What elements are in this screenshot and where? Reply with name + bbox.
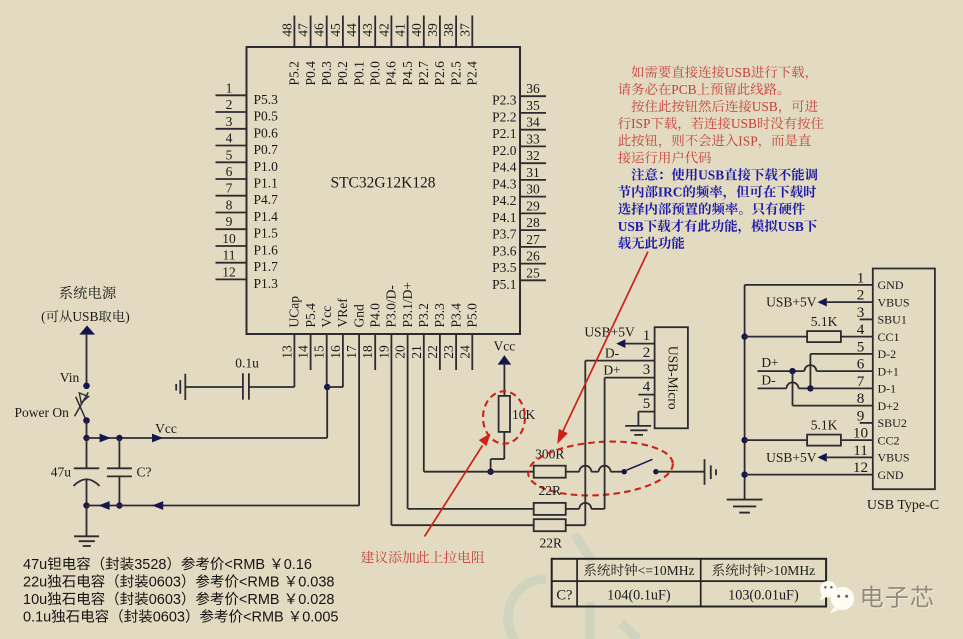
svg-text:7: 7 xyxy=(857,373,865,390)
svg-text:45: 45 xyxy=(328,23,343,37)
arrow on ground rail 2 xyxy=(152,501,163,510)
USB Type-C pin 6 wire (D+1) xyxy=(816,370,872,372)
U1 pin 22 lead (bottom) xyxy=(439,334,441,370)
U1 pin 14 lead (bottom) xyxy=(310,334,312,370)
wire ground to C 0.1u xyxy=(185,386,243,388)
svg-text:5: 5 xyxy=(226,147,233,162)
svg-text:<=10MHz: <=10MHz xyxy=(638,563,695,578)
switch S2 arm xyxy=(627,459,653,470)
svg-text:0603: 0603 xyxy=(149,575,181,591)
resistor R 22R (upper) xyxy=(534,503,566,515)
wire 300R to hop xyxy=(566,471,580,473)
U1 pin 29 lead (right) xyxy=(520,212,546,214)
wire D+ stub xyxy=(758,370,805,372)
svg-text:USB+5V: USB+5V xyxy=(766,450,817,465)
svg-text:23: 23 xyxy=(441,345,456,359)
capacitor 47u top wire xyxy=(86,438,88,468)
svg-text:P5.1: P5.1 xyxy=(492,277,516,292)
capacitor C? top wire xyxy=(118,438,120,468)
svg-text:0.1u: 0.1u xyxy=(23,610,51,626)
U1 pin 38 lead (top) xyxy=(455,16,457,48)
svg-text:1: 1 xyxy=(643,328,651,344)
svg-text:USB: USB xyxy=(752,99,778,114)
svg-text:11: 11 xyxy=(223,248,236,263)
U1 pin 11 lead (left) xyxy=(216,262,247,264)
svg-text:USB: USB xyxy=(778,219,804,234)
svg-text:P2.5: P2.5 xyxy=(448,61,463,86)
svg-text:5: 5 xyxy=(643,396,651,412)
U1 pin 17 lead (bottom) xyxy=(358,334,360,506)
wire switch to ground xyxy=(656,471,705,473)
svg-text:10u: 10u xyxy=(23,592,47,608)
svg-text:4: 4 xyxy=(226,131,233,146)
USB Type-C pin 2 wire (VBUS) xyxy=(827,301,873,303)
svg-text:<RMB: <RMB xyxy=(243,610,288,626)
wire hop to switch xyxy=(611,471,622,473)
svg-text:48: 48 xyxy=(279,23,294,37)
svg-text:ISP: ISP xyxy=(738,133,757,148)
junction 10K/P3.2 xyxy=(487,469,493,475)
wire R 5.1K lower to CC2 xyxy=(841,439,873,441)
wire C 0.1u to UCap pin13 xyxy=(249,386,295,388)
U1 pin 25 lead (right) xyxy=(520,279,546,281)
svg-text:8: 8 xyxy=(857,390,865,407)
svg-text:P1.6: P1.6 xyxy=(254,243,279,258)
svg-text:2: 2 xyxy=(643,345,651,361)
USB Type-C pin 3 stub (SBU1) xyxy=(860,318,873,320)
svg-text:D-1: D-1 xyxy=(878,382,897,396)
svg-text:C?: C? xyxy=(137,465,152,480)
wire Vcc to R 10K xyxy=(503,365,505,396)
svg-text:P2.4: P2.4 xyxy=(465,61,480,86)
wire D- stub xyxy=(758,387,787,389)
table header 系统时钟<=10MHz xyxy=(584,564,596,577)
svg-text:47u: 47u xyxy=(51,465,72,480)
wire R 10K to P3.2 net xyxy=(503,432,505,459)
svg-text:3: 3 xyxy=(226,114,233,129)
svg-text:D+: D+ xyxy=(761,355,778,370)
switch S1 arrowhead xyxy=(79,393,88,403)
svg-text:1: 1 xyxy=(226,80,233,95)
watermark arc xyxy=(508,535,638,639)
svg-text:0603: 0603 xyxy=(153,610,185,626)
svg-text:3: 3 xyxy=(857,304,865,321)
svg-text:Vcc: Vcc xyxy=(155,421,177,436)
svg-text:P1.0: P1.0 xyxy=(254,159,279,174)
wire switch to Vcc rail xyxy=(86,421,88,438)
resistor R 5.1K upper xyxy=(807,331,841,342)
wire D+2 riser xyxy=(792,371,794,406)
note red line 3 xyxy=(617,110,619,112)
U1 pin 4 lead (left) xyxy=(216,145,247,147)
svg-text:<RMB: <RMB xyxy=(239,592,284,608)
svg-text:P0.3: P0.3 xyxy=(319,61,334,86)
svg-text:VRef: VRef xyxy=(335,298,350,328)
U1 pin 44 lead (top) xyxy=(358,16,360,48)
USB Type-C pin 5 wire (D-2) xyxy=(810,353,872,355)
wire 22R to D- riser xyxy=(566,524,586,526)
svg-text:32: 32 xyxy=(526,148,540,163)
wire hop to D+ riser xyxy=(591,508,604,510)
svg-text:22R: 22R xyxy=(538,483,561,498)
svg-text:D-: D- xyxy=(761,372,776,387)
svg-text:P4.3: P4.3 xyxy=(492,176,517,191)
USB-Micro pin 1 wire xyxy=(625,343,654,345)
svg-text:P1.7: P1.7 xyxy=(254,259,279,274)
svg-text:P5.4: P5.4 xyxy=(303,303,318,328)
wire hop to D-1 xyxy=(799,387,811,389)
ground symbol (Type-C) xyxy=(727,499,763,501)
svg-text:CC2: CC2 xyxy=(878,433,900,447)
svg-text:38: 38 xyxy=(441,23,456,37)
svg-text:43: 43 xyxy=(360,23,375,37)
svg-text:17: 17 xyxy=(344,345,359,359)
red arrow to 10K xyxy=(425,446,483,537)
svg-text:P0.5: P0.5 xyxy=(254,109,279,124)
svg-text:GND: GND xyxy=(878,468,904,482)
wire D- riser xyxy=(584,361,586,526)
ground symbol (switch, sideways) xyxy=(704,459,706,485)
U1 pin 21 lead (bottom) xyxy=(423,334,425,472)
svg-text:P2.3: P2.3 xyxy=(492,93,517,108)
USB-Micro pin 3 wire (D+) xyxy=(605,377,655,379)
svg-text:P0.7: P0.7 xyxy=(254,142,279,157)
svg-text:5: 5 xyxy=(857,338,865,355)
svg-text:P1.4: P1.4 xyxy=(254,209,279,224)
note red line 2 xyxy=(618,83,630,95)
svg-text:36: 36 xyxy=(526,81,540,96)
U1 pin 20 lead (bottom) xyxy=(407,334,409,509)
wire hop over D- line xyxy=(579,466,591,472)
svg-text:P4.1: P4.1 xyxy=(492,210,516,225)
connector USB Type-C body xyxy=(873,269,935,490)
svg-text:UCap: UCap xyxy=(287,296,302,328)
svg-text:P2.1: P2.1 xyxy=(492,126,516,141)
svg-text:4: 4 xyxy=(643,379,651,395)
svg-text:4: 4 xyxy=(857,321,865,338)
wire hop over D- line (D+ row) xyxy=(579,503,591,509)
svg-text:P0.1: P0.1 xyxy=(351,61,366,85)
wire D+ riser xyxy=(604,378,606,509)
junction C? bottom xyxy=(116,502,122,508)
svg-text:28: 28 xyxy=(526,215,540,230)
U1 pin 37 lead (top) xyxy=(471,16,473,48)
svg-text:P3.3: P3.3 xyxy=(432,303,447,328)
svg-text:35: 35 xyxy=(526,98,540,113)
note blue line 5 xyxy=(618,237,631,249)
U1 pin 6 lead (left) xyxy=(216,178,247,180)
note 建议添加此上拉电阻 xyxy=(361,551,374,564)
capacitor 47u curved plate xyxy=(74,479,100,486)
note red line 5 xyxy=(618,134,630,146)
switch S1 bottom contact xyxy=(83,417,90,424)
switch S2 contact right xyxy=(653,469,658,474)
svg-text:VBUS: VBUS xyxy=(878,451,910,465)
U1 pin 41 lead (top) xyxy=(407,16,409,48)
note red line 4 xyxy=(618,117,631,129)
svg-text:(: ( xyxy=(41,309,46,324)
svg-text:0.028: 0.028 xyxy=(298,592,334,608)
svg-text:P5.3: P5.3 xyxy=(254,92,279,107)
svg-text:46: 46 xyxy=(312,23,327,37)
USB-Micro pin 4 stub xyxy=(638,394,654,396)
table header 系统时钟>10MHz xyxy=(712,564,724,577)
svg-text:P3.6: P3.6 xyxy=(492,243,517,258)
svg-text:13: 13 xyxy=(279,345,294,359)
resistor R 300R xyxy=(534,466,566,478)
U1 pin 12 lead (left) xyxy=(216,278,247,280)
svg-text:103(0.01uF): 103(0.01uF) xyxy=(728,587,799,603)
USB Type-C pin 7 wire (D-1) xyxy=(810,387,872,389)
svg-text:44: 44 xyxy=(344,23,359,37)
U1 pin 28 lead (right) xyxy=(520,229,546,231)
svg-text:D+2: D+2 xyxy=(878,399,899,413)
junction GND rail / R 5.1K lower xyxy=(741,437,747,443)
svg-text:20: 20 xyxy=(393,345,408,359)
svg-text:D-: D- xyxy=(605,346,620,361)
U1 pin 24 lead (bottom) xyxy=(471,334,473,370)
svg-text:19: 19 xyxy=(376,345,391,359)
svg-text:16: 16 xyxy=(328,345,343,359)
wire P3.1/D+ pin20 to 22R xyxy=(408,508,534,510)
svg-text:P2.6: P2.6 xyxy=(432,61,447,86)
U1 pin 46 lead (top) xyxy=(326,16,328,48)
svg-text:8: 8 xyxy=(226,198,233,213)
U1 pin 2 lead (left) xyxy=(216,111,247,113)
svg-text:9: 9 xyxy=(226,214,233,229)
capacitor 47u top plate xyxy=(74,467,99,469)
capacitor C? plates xyxy=(107,467,132,469)
svg-text:33: 33 xyxy=(526,131,540,146)
junction 47u bottom xyxy=(83,502,89,508)
svg-text:22: 22 xyxy=(425,345,440,359)
U1 pin 34 lead (right) xyxy=(520,129,546,131)
USB Type-C pin 9 stub (SBU2) xyxy=(860,422,873,424)
svg-text:<RMB: <RMB xyxy=(224,557,269,573)
svg-text:P1.1: P1.1 xyxy=(254,176,278,191)
svg-text:<RMB: <RMB xyxy=(239,575,284,591)
svg-text:30: 30 xyxy=(526,182,540,197)
junction GND rail / pin 12 xyxy=(741,471,747,477)
switch S2 contact left xyxy=(622,469,627,474)
svg-text:0.038: 0.038 xyxy=(298,575,334,591)
svg-text:VBUS: VBUS xyxy=(878,295,910,309)
svg-text:D-2: D-2 xyxy=(878,347,897,361)
U1 pin 26 lead (right) xyxy=(520,263,546,265)
svg-text:Power On: Power On xyxy=(15,405,70,420)
svg-text:6: 6 xyxy=(226,164,233,179)
svg-text:18: 18 xyxy=(360,345,375,359)
svg-text:9: 9 xyxy=(857,407,865,424)
svg-text:29: 29 xyxy=(526,198,540,213)
svg-text:21: 21 xyxy=(409,345,424,359)
note red line 6 xyxy=(618,151,631,163)
U1 pin 31 lead (right) xyxy=(520,179,546,181)
svg-text:10: 10 xyxy=(222,231,236,246)
junction Vcc/VRef (pin15) xyxy=(324,384,330,390)
svg-text:USB Type-C: USB Type-C xyxy=(867,498,939,513)
svg-text:P4.0: P4.0 xyxy=(368,303,383,328)
svg-text:25: 25 xyxy=(526,265,540,280)
U1 pin 8 lead (left) xyxy=(216,212,247,214)
U1 pin 43 lead (top) xyxy=(374,16,376,48)
svg-text:P1.3: P1.3 xyxy=(254,276,279,291)
capacitor C? bottom wire xyxy=(118,476,120,505)
U1 pin 39 lead (top) xyxy=(439,16,441,48)
wire rail to R 5.1K lower xyxy=(745,439,808,441)
svg-text:P2.0: P2.0 xyxy=(492,143,517,158)
red ellipse around 300R/switch xyxy=(526,437,674,500)
U1 pin 19 lead (bottom) xyxy=(390,334,392,525)
resistor R 5.1K lower xyxy=(807,435,841,446)
svg-text:P3.5: P3.5 xyxy=(492,260,517,275)
svg-text:26: 26 xyxy=(526,249,540,264)
svg-text:ISP: ISP xyxy=(631,116,650,131)
svg-text:P4.6: P4.6 xyxy=(384,61,399,86)
resistor R 10K xyxy=(499,396,510,432)
wire rail to R 5.1K upper xyxy=(745,336,808,338)
U1 pin 35 lead (right) xyxy=(520,112,546,114)
svg-text:P4.7: P4.7 xyxy=(254,192,279,207)
U1 pin 45 lead (top) xyxy=(342,16,344,48)
svg-text:47u: 47u xyxy=(23,557,47,573)
svg-text:CC1: CC1 xyxy=(878,330,900,344)
arrow USB+5V (VBUS top) xyxy=(817,298,826,307)
ground symbol (0.1u, sideways) xyxy=(184,374,186,400)
svg-text:P0.2: P0.2 xyxy=(335,61,350,85)
svg-text:0.1u: 0.1u xyxy=(235,355,259,370)
svg-text:12: 12 xyxy=(853,459,868,476)
USB Type-C pin 12 wire (GND) xyxy=(745,474,873,476)
svg-text:5.1K: 5.1K xyxy=(811,314,838,329)
svg-text:P3.7: P3.7 xyxy=(492,227,517,242)
svg-text:Vin: Vin xyxy=(60,370,80,385)
svg-text:P2.7: P2.7 xyxy=(416,61,431,86)
svg-text:STC32G12K128: STC32G12K128 xyxy=(330,175,435,192)
junction D- / D-2 riser xyxy=(807,385,813,391)
svg-text:47: 47 xyxy=(296,23,311,37)
red ellipse around 10K xyxy=(483,391,525,443)
svg-text:P3.0/D-: P3.0/D- xyxy=(384,285,399,328)
U1 pin 48 lead (top) xyxy=(293,16,295,48)
svg-text:22R: 22R xyxy=(540,536,563,551)
svg-text:USB: USB xyxy=(731,116,757,131)
arrow on ground rail 1 xyxy=(98,501,109,510)
svg-text:P4.4: P4.4 xyxy=(492,160,517,175)
wire P3.2 pin21 to 300R xyxy=(424,471,534,473)
svg-text:0.005: 0.005 xyxy=(302,610,338,626)
svg-text:14: 14 xyxy=(296,345,311,359)
U1 pin 9 lead (left) xyxy=(216,228,247,230)
wire P3.0/D- pin19 to 22R xyxy=(392,524,534,526)
U1 pin 32 lead (right) xyxy=(520,162,546,164)
U1 pin 30 lead (right) xyxy=(520,196,546,198)
wire Vcc rail xyxy=(87,437,328,439)
svg-text:1: 1 xyxy=(857,269,865,286)
svg-text:31: 31 xyxy=(526,165,540,180)
svg-text:P3.4: P3.4 xyxy=(448,303,463,328)
USB Type-C pin 8 wire (D+2) xyxy=(793,405,873,407)
svg-text:12: 12 xyxy=(222,264,236,279)
svg-text:3528: 3528 xyxy=(134,557,166,573)
svg-text:GND: GND xyxy=(878,278,904,292)
logo wechat bubbles xyxy=(820,581,855,614)
resistor R 22R (lower) xyxy=(534,519,566,531)
svg-text:P1.5: P1.5 xyxy=(254,226,279,241)
logo text 电子芯 xyxy=(863,585,934,608)
U1 pin 10 lead (left) xyxy=(216,245,247,247)
svg-text:2: 2 xyxy=(857,287,865,304)
wire arrow to Vin node xyxy=(86,335,88,384)
U1 pin 23 lead (bottom) xyxy=(455,334,457,370)
svg-text:SBU1: SBU1 xyxy=(878,313,907,327)
arrow USB+5V (VBUS bottom) xyxy=(817,453,826,462)
svg-text:P0.6: P0.6 xyxy=(254,125,279,140)
USB Type-C pin 11 wire (VBUS) xyxy=(827,456,873,458)
junction C1 top xyxy=(116,435,122,441)
wire hop over D+ line xyxy=(599,466,611,472)
wire hop D+ over D-2 riser xyxy=(804,365,816,371)
note blue line 3 xyxy=(618,202,631,214)
wire Vcc rail riser to pin15 xyxy=(326,387,328,438)
svg-text:P4.2: P4.2 xyxy=(492,193,516,208)
capacitor 0.1u plates xyxy=(242,373,244,399)
svg-text:34: 34 xyxy=(526,115,540,130)
U1 pin 18 lead (bottom) xyxy=(374,334,376,370)
svg-text:37: 37 xyxy=(457,23,472,37)
wire VRef pin16 to junction xyxy=(327,386,343,388)
svg-text:0.16: 0.16 xyxy=(284,557,312,573)
U1 pin 16 lead (bottom) xyxy=(342,334,344,387)
junction Vin/Vcc rail xyxy=(83,435,89,441)
svg-text:IRC: IRC xyxy=(658,185,683,200)
junction GND rail / R 5.1K upper xyxy=(741,333,747,339)
svg-text:>10MHz: >10MHz xyxy=(766,563,815,578)
svg-text:42: 42 xyxy=(376,23,391,37)
svg-text:24: 24 xyxy=(457,345,472,359)
svg-text:USB: USB xyxy=(618,219,644,234)
svg-text:D+1: D+1 xyxy=(878,364,899,378)
svg-text:SBU2: SBU2 xyxy=(878,416,907,430)
svg-text:Vcc: Vcc xyxy=(319,306,334,328)
svg-text:D+: D+ xyxy=(603,363,620,378)
svg-text:6: 6 xyxy=(857,356,865,373)
svg-text:P2.2: P2.2 xyxy=(492,109,516,124)
arrow on Vcc rail 2 xyxy=(152,434,163,443)
svg-text:Vcc: Vcc xyxy=(494,339,516,354)
ground symbol (USB-Micro) xyxy=(625,425,651,427)
U1 pin 27 lead (right) xyxy=(520,246,546,248)
wire D-2 riser xyxy=(809,354,811,389)
note red line 1 xyxy=(617,76,619,78)
svg-text:22u: 22u xyxy=(23,575,47,591)
svg-text:): ) xyxy=(125,309,129,324)
arrow USB+5V (micro) xyxy=(616,339,625,348)
wire 22R to hop (D+ row) xyxy=(566,508,580,510)
wire ground rail xyxy=(87,505,360,507)
svg-text:P5.2: P5.2 xyxy=(287,61,302,85)
svg-text:PCB: PCB xyxy=(671,82,696,97)
svg-text:Gnd: Gnd xyxy=(351,304,366,327)
switch S1 Power On arm xyxy=(75,392,89,416)
USB-Micro pin 5 wire xyxy=(638,411,654,413)
svg-text:15: 15 xyxy=(312,345,327,359)
svg-text:P4.5: P4.5 xyxy=(400,61,415,86)
U1 pin 13 lead (bottom) xyxy=(293,334,295,387)
U1 pin 5 lead (left) xyxy=(216,161,247,163)
U1 pin 47 lead (top) xyxy=(310,16,312,48)
wire to ground symbol xyxy=(86,506,88,537)
